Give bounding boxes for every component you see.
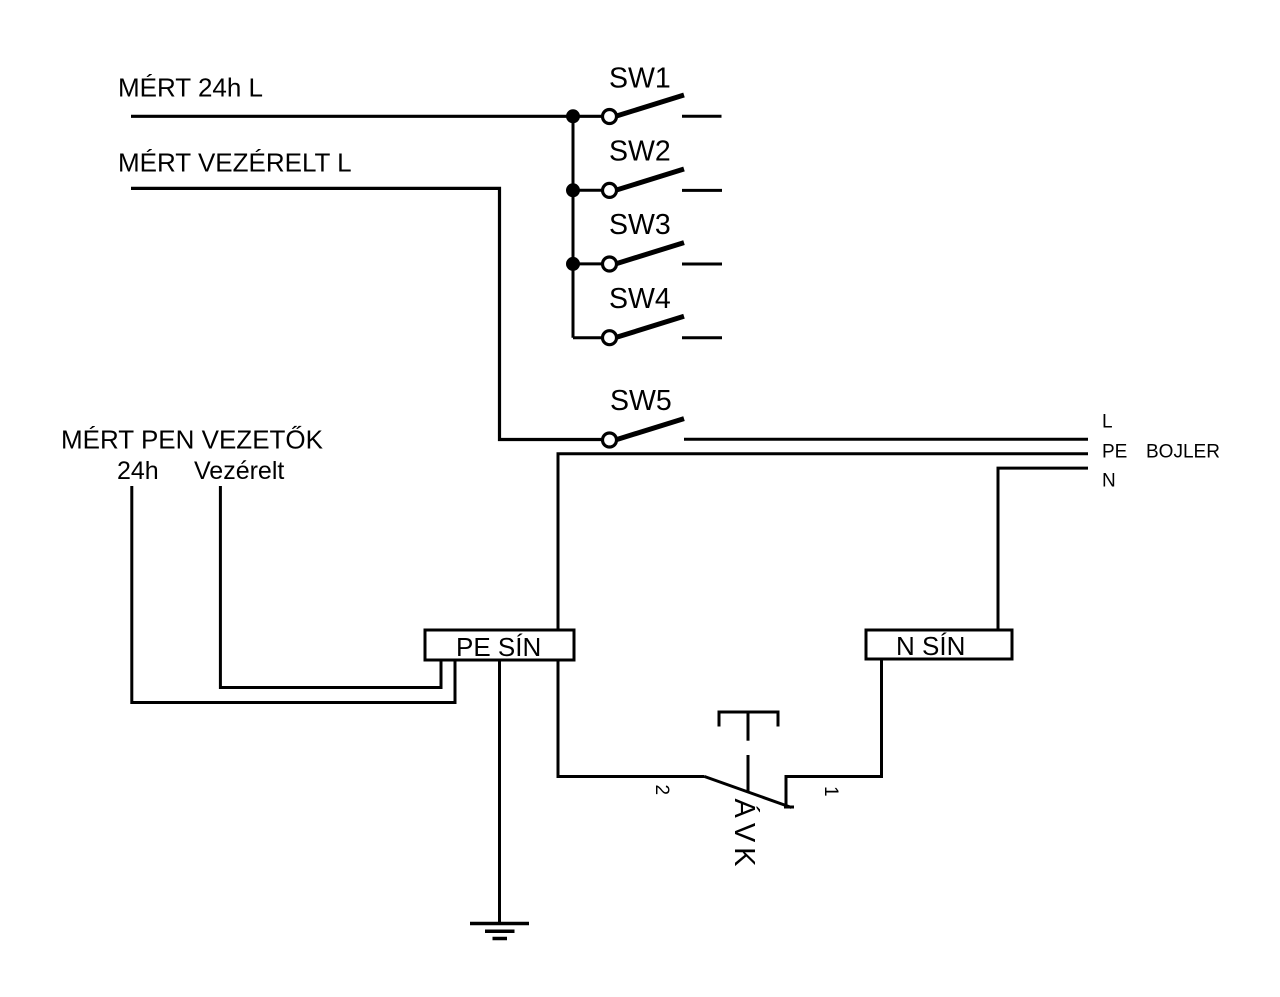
wire MÉRT VEZÉRELT L run to SW5 [131,188,602,439]
svg-text:2: 2 [651,785,672,796]
wire PE line to BOJLER [558,454,1088,630]
svg-text:Vezérelt: Vezérelt [194,457,284,485]
wire PE SÍN to ÁVK pin 2 [558,660,705,777]
wire SW3 right terminal [682,263,722,266]
wire Vezérelt run to PE SÍN [220,486,441,688]
switch SW2 [603,169,685,197]
svg-text:N: N [1102,470,1116,491]
svg-text:SW4: SW4 [609,283,671,315]
svg-text:ÁVK: ÁVK [728,799,761,872]
switch SW3 [603,243,685,271]
svg-text:SW2: SW2 [609,136,671,168]
wire SW2 stub [573,189,602,192]
svg-text:SW5: SW5 [610,385,672,417]
pushbutton ÁVK actuator stem [747,712,750,792]
switch SW5 [603,419,685,447]
wire SW column vertical [572,116,575,337]
svg-text:PE: PE [1102,442,1127,463]
junction dot SW1 [566,109,580,123]
svg-text:MÉRT PEN VEZETŐK: MÉRT PEN VEZETŐK [61,425,324,455]
wire SW3 stub [573,262,602,265]
wire MÉRT 24h L horizontal [131,115,602,118]
wire N line to BOJLER [998,468,1088,630]
svg-text:SW1: SW1 [609,62,671,94]
svg-text:BOJLER: BOJLER [1146,442,1220,463]
ground [470,924,529,939]
svg-text:MÉRT VEZÉRELT L: MÉRT VEZÉRELT L [118,148,352,178]
svg-text:24h: 24h [117,457,159,485]
wire N SÍN to ÁVK pin 1 [786,659,882,806]
svg-text:N SÍN: N SÍN [896,631,965,661]
wire SW1 right terminal [682,115,722,118]
wire 24h run to PE SÍN [132,486,455,703]
switch SW1 [603,95,685,124]
junction dot SW2 [566,183,580,197]
junction dot SW3 [566,257,580,271]
wire SW4 stub [573,336,602,339]
svg-text:L: L [1102,412,1113,433]
bus PE SÍN box [425,630,574,660]
svg-text:MÉRT 24h L: MÉRT 24h L [118,73,263,103]
switch SW4 [603,316,685,344]
bus N SÍN box [866,630,1012,659]
pushbutton ÁVK blade [705,777,792,808]
svg-text:SW3: SW3 [609,209,671,241]
wire PE SÍN to ground [498,660,501,924]
svg-text:1: 1 [820,786,841,797]
wire SW2 right terminal [682,189,722,192]
wire SW4 right terminal [682,336,722,339]
wire L line to BOJLER [684,438,1088,441]
pushbutton ÁVK actuator bracket [719,712,778,727]
svg-text:PE SÍN: PE SÍN [456,632,541,662]
pushbutton ÁVK blade tip tick [784,806,794,809]
